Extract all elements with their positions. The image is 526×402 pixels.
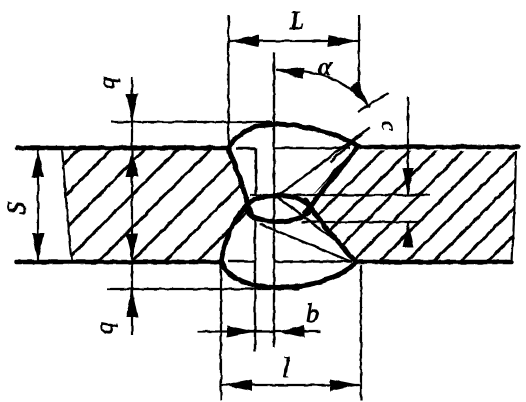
svg-text:b: b	[306, 299, 319, 328]
svg-text:q: q	[93, 322, 119, 334]
svg-text:S: S	[2, 202, 31, 215]
svg-text:l: l	[282, 353, 290, 384]
svg-text:α: α	[318, 52, 333, 81]
svg-text:L: L	[289, 6, 304, 35]
svg-text:q: q	[95, 77, 121, 89]
svg-text:c: c	[377, 121, 402, 131]
